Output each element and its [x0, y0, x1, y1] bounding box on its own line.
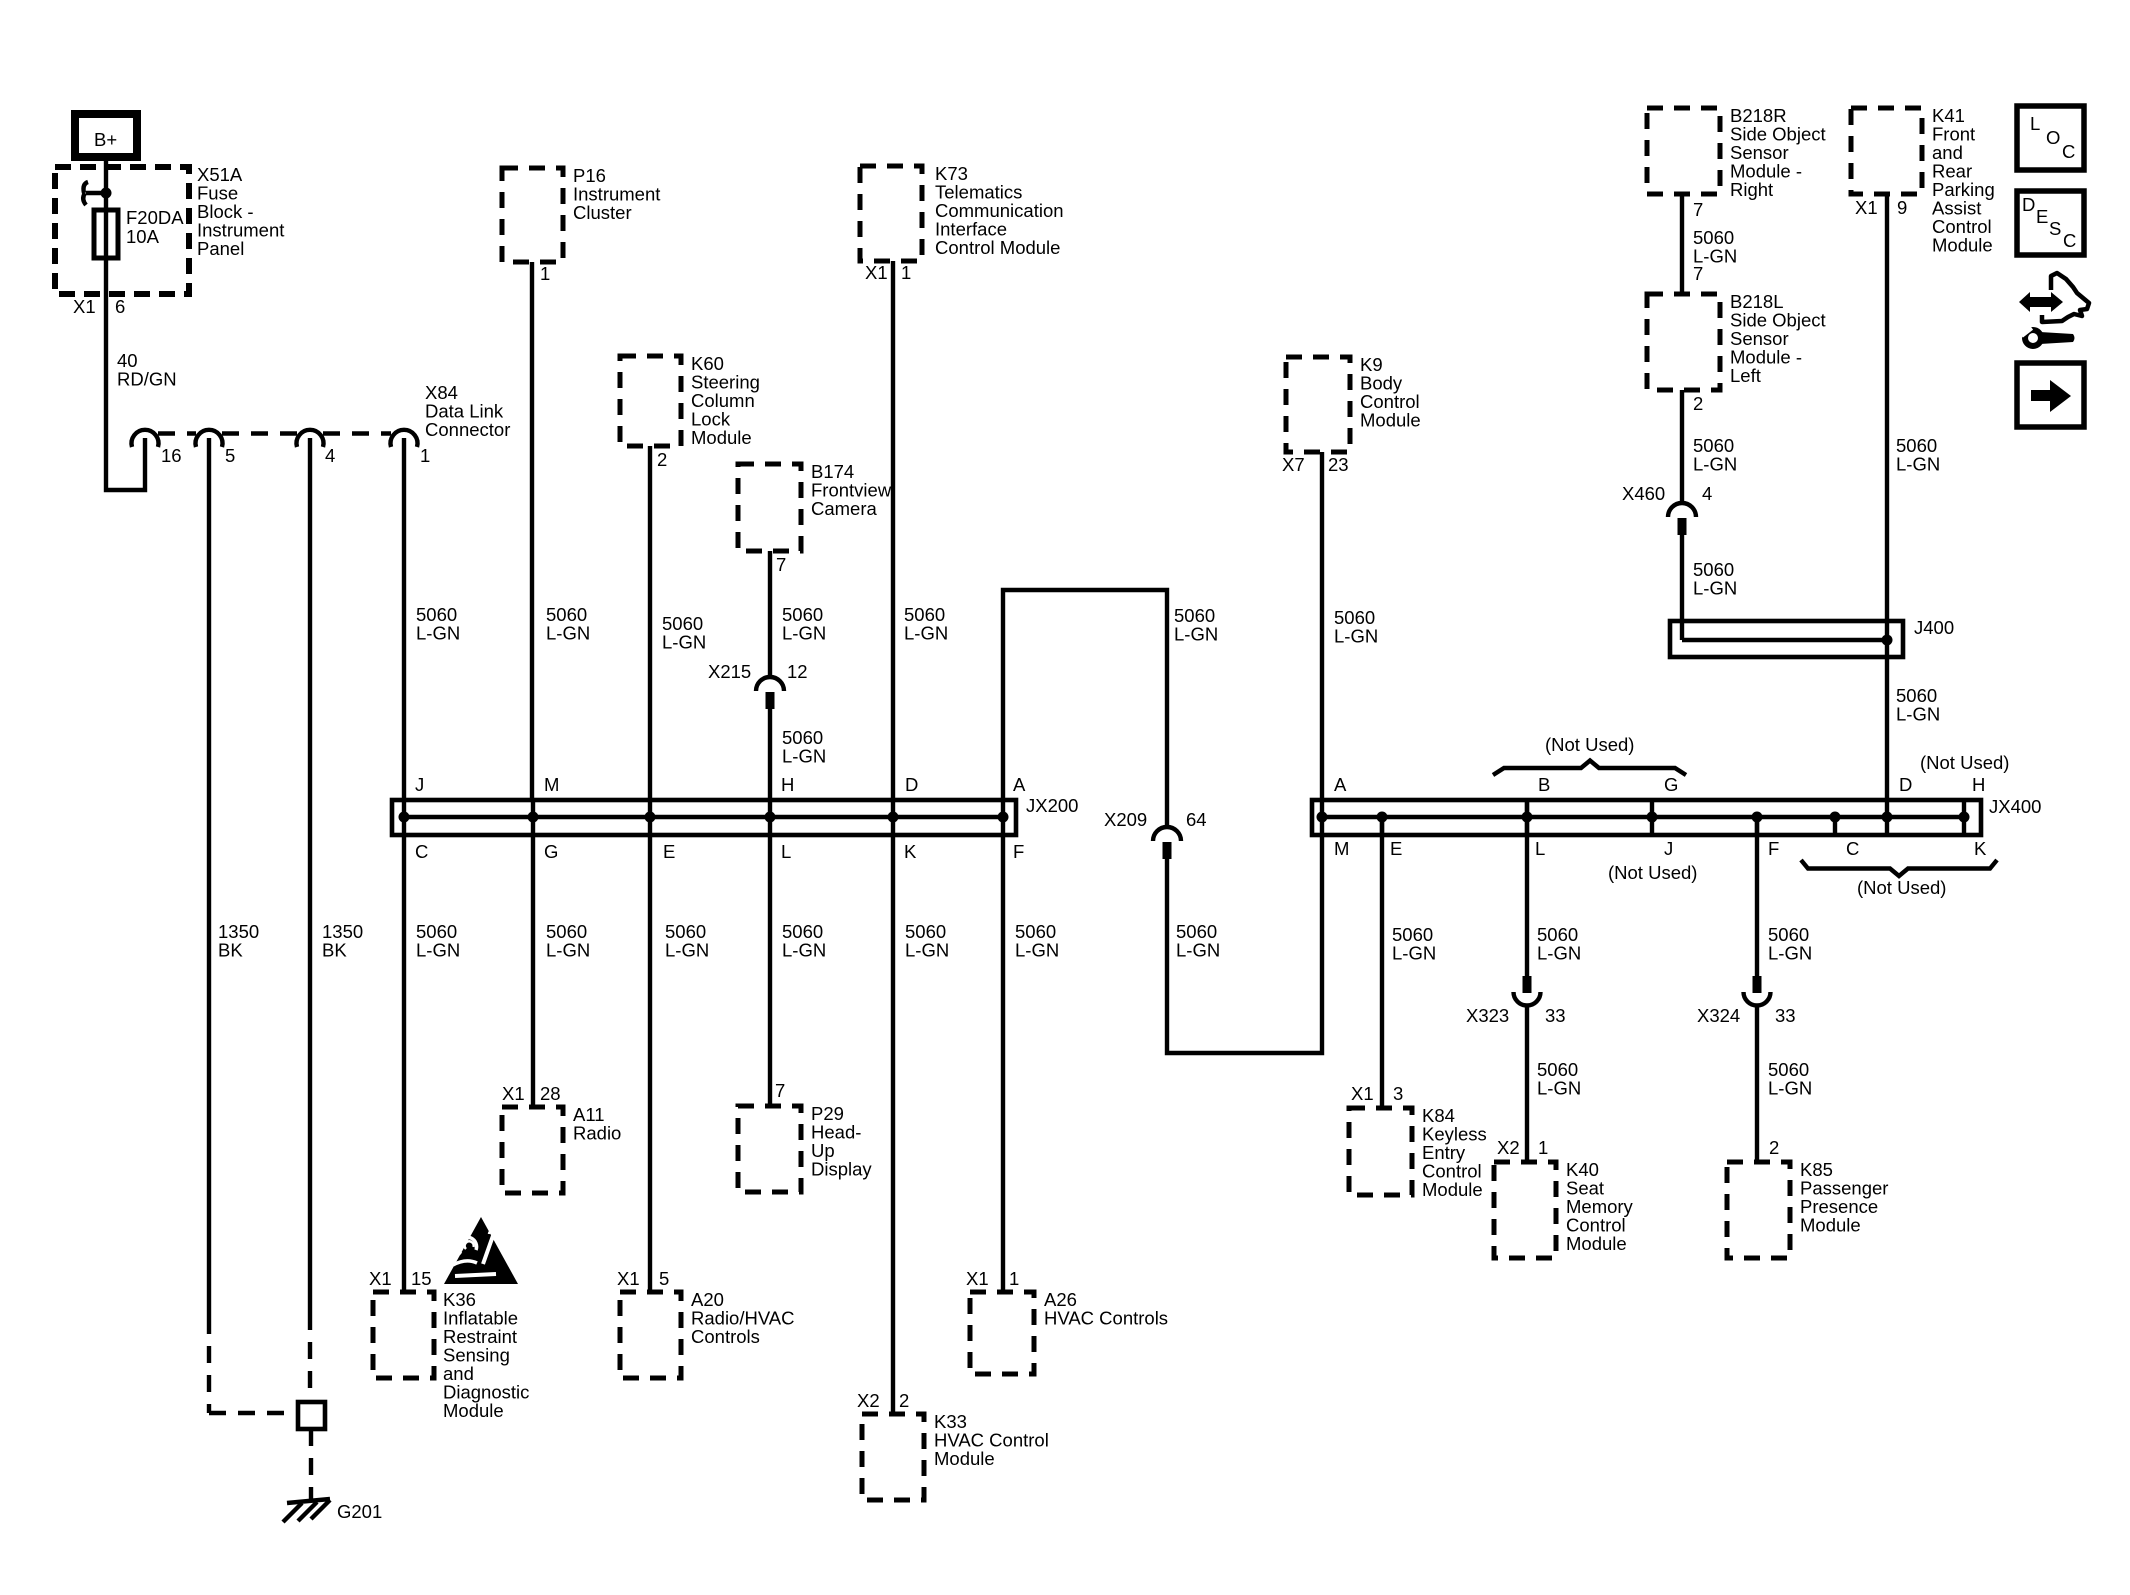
- junction block JX400: [1312, 796, 2041, 835]
- wire P16 to JX200 M, 5060 L-GN: [532, 262, 590, 800]
- pin X1 1 of K73: [865, 262, 911, 283]
- JX200 terminal letters top: [415, 774, 1026, 795]
- svg-text:Cluster: Cluster: [573, 202, 632, 223]
- module K9 Body Control Module: [1286, 354, 1421, 452]
- svg-text:Module: Module: [1932, 235, 1993, 256]
- svg-text:K: K: [904, 841, 917, 862]
- svg-text:D: D: [2022, 194, 2035, 215]
- splice junction box: [298, 1402, 325, 1429]
- svg-text:1: 1: [540, 263, 550, 284]
- svg-text:G201: G201: [337, 1501, 382, 1522]
- svg-text:L-GN: L-GN: [782, 746, 826, 767]
- wire X460 to J400, 5060 L-GN: [1682, 535, 1737, 640]
- svg-text:B+: B+: [94, 129, 117, 150]
- svg-text:X1: X1: [369, 1268, 392, 1289]
- module K85 Passenger Presence Module: [1727, 1159, 1888, 1258]
- pin X1 5 of A20: [617, 1268, 669, 1289]
- pin X2 1 of K40: [1497, 1137, 1548, 1158]
- svg-text:L: L: [781, 841, 791, 862]
- svg-text:3: 3: [1393, 1083, 1403, 1104]
- svg-text:B: B: [1538, 774, 1550, 795]
- wire JX400 L to X323, 5060 L-GN: [1527, 800, 1581, 978]
- wire JX200 A up and over to X209, 5060 L-GN: [1003, 590, 1218, 826]
- module A26 HVAC Controls: [970, 1289, 1168, 1374]
- node JX400 F: [1752, 812, 1763, 823]
- connector X51A fuse block dashed box: [55, 164, 284, 294]
- svg-text:16: 16: [161, 445, 182, 466]
- wire JX200 F to A26, 5060 L-GN: [1003, 800, 1059, 1292]
- svg-text:Controls: Controls: [691, 1326, 760, 1347]
- junction block JX200: [392, 795, 1078, 835]
- svg-text:Module: Module: [1800, 1215, 1861, 1236]
- pin 5 of X84: [196, 430, 236, 466]
- svg-text:L-GN: L-GN: [1693, 454, 1737, 475]
- icon next page arrow box: [2017, 363, 2084, 427]
- svg-text:12: 12: [787, 661, 808, 682]
- module K40 Seat Memory Control Module: [1494, 1159, 1634, 1258]
- wire 40 RD/GN label: [117, 350, 177, 390]
- wire JX200 L to P29, 5060 L-GN: [770, 800, 826, 1106]
- svg-text:L-GN: L-GN: [665, 940, 709, 961]
- svg-text:X209: X209: [1104, 809, 1147, 830]
- svg-text:L: L: [2030, 113, 2040, 134]
- svg-text:2: 2: [1693, 393, 1703, 414]
- svg-text:23: 23: [1328, 454, 1349, 475]
- svg-text:L: L: [1535, 838, 1545, 859]
- svg-text:L-GN: L-GN: [546, 940, 590, 961]
- svg-text:X215: X215: [708, 661, 751, 682]
- pin X1 15 of K36: [369, 1268, 432, 1289]
- svg-text:X1: X1: [502, 1083, 525, 1104]
- wire JX400 F to X324, 5060 L-GN: [1757, 815, 1812, 978]
- svg-text:L-GN: L-GN: [1537, 1078, 1581, 1099]
- svg-text:L-GN: L-GN: [1392, 943, 1436, 964]
- JX400 terminal letters bottom: [1334, 838, 1987, 859]
- svg-text:Radio: Radio: [573, 1123, 621, 1144]
- svg-text:X460: X460: [1622, 483, 1665, 504]
- module P29 Head-Up Display: [738, 1103, 872, 1192]
- bracket not used C-K: [1801, 860, 1997, 898]
- pin 1 of X84: [391, 430, 431, 466]
- svg-text:J: J: [415, 774, 424, 795]
- module K84 Keyless Entry Control Module: [1349, 1105, 1487, 1200]
- pin 4 of X84: [297, 430, 336, 466]
- wire JX200 K to K33, 5060 L-GN: [893, 800, 949, 1414]
- node JX200 H/L: [765, 812, 776, 823]
- wire K73 to JX200 D, 5060 L-GN: [893, 261, 948, 800]
- svg-text:Module: Module: [1360, 410, 1421, 431]
- svg-text:L-GN: L-GN: [662, 632, 706, 653]
- svg-text:L-GN: L-GN: [416, 623, 460, 644]
- svg-text:33: 33: [1545, 1005, 1566, 1026]
- icon DESC box: [2017, 191, 2084, 255]
- svg-text:E: E: [2036, 206, 2048, 227]
- icon LOC box: [2017, 106, 2084, 170]
- svg-text:10A: 10A: [126, 226, 160, 247]
- pin X1 9 of K41: [1855, 197, 1907, 218]
- svg-text:A: A: [1334, 774, 1347, 795]
- wire B174 to X215, 5060 L-GN: [770, 551, 826, 676]
- svg-text:7: 7: [1693, 199, 1703, 220]
- node JX200 A/F: [998, 812, 1009, 823]
- wire JX200 C to K36, 5060 L-GN: [404, 800, 460, 1292]
- svg-text:X1: X1: [1351, 1083, 1374, 1104]
- svg-text:G: G: [544, 841, 558, 862]
- svg-text:Module: Module: [1566, 1233, 1627, 1254]
- svg-text:64: 64: [1186, 809, 1207, 830]
- junction block J400: [1670, 617, 1954, 657]
- svg-text:BK: BK: [218, 940, 243, 961]
- svg-text:X2: X2: [857, 1390, 880, 1411]
- svg-text:X1: X1: [617, 1268, 640, 1289]
- svg-text:L-GN: L-GN: [1768, 1078, 1812, 1099]
- pin X7 23 of K9: [1282, 454, 1349, 475]
- module B218L Side Object Sensor Module - Left: [1647, 291, 1826, 390]
- node JX400 B/L: [1522, 812, 1533, 823]
- wire X84 pin 4 ground lead 1350 BK: [310, 438, 363, 1402]
- wire K60 to JX200 E, 5060 L-GN: [650, 446, 706, 800]
- svg-text:(Not Used): (Not Used): [1857, 877, 1946, 898]
- JX400 stub H/K: [1962, 800, 1966, 835]
- svg-text:7: 7: [775, 1080, 785, 1101]
- module K33 HVAC Control Module: [862, 1411, 1049, 1500]
- node JX200 E: [645, 812, 656, 823]
- wire splice to ground: [309, 1429, 313, 1499]
- svg-text:X323: X323: [1466, 1005, 1509, 1026]
- svg-text:Display: Display: [811, 1159, 872, 1180]
- svg-text:HVAC Controls: HVAC Controls: [1044, 1308, 1168, 1329]
- svg-text:9: 9: [1897, 197, 1907, 218]
- svg-text:F: F: [1768, 838, 1779, 859]
- module B174 Frontview Camera: [738, 461, 892, 551]
- fuse block bus tap symbol: [83, 182, 111, 205]
- node J400 splice: [1882, 635, 1893, 646]
- svg-text:L-GN: L-GN: [782, 623, 826, 644]
- svg-text:1: 1: [1538, 1137, 1548, 1158]
- svg-text:O: O: [2046, 127, 2060, 148]
- wire B+ feed down into fuse block: [106, 157, 145, 490]
- svg-text:(Not Used): (Not Used): [1545, 734, 1634, 755]
- svg-text:S: S: [2049, 218, 2061, 239]
- svg-text:28: 28: [540, 1083, 561, 1104]
- ground G201: [283, 1499, 382, 1522]
- wire J400 to JX400 D label 5060 L-GN: [1896, 685, 1940, 725]
- fuse F20DA 10A: [94, 207, 184, 258]
- node JX200 J/C: [399, 812, 410, 823]
- svg-text:C: C: [2063, 230, 2076, 251]
- svg-text:X1: X1: [73, 296, 96, 317]
- svg-text:L-GN: L-GN: [905, 940, 949, 961]
- svg-text:L-GN: L-GN: [546, 623, 590, 644]
- pin X1 6 of X51A: [73, 296, 125, 317]
- svg-text:Module: Module: [691, 427, 752, 448]
- svg-text:2: 2: [657, 449, 667, 470]
- svg-text:G: G: [1664, 774, 1678, 795]
- module P16 Instrument Cluster: [502, 165, 660, 262]
- svg-text:X1: X1: [966, 1268, 989, 1289]
- svg-text:L-GN: L-GN: [1537, 943, 1581, 964]
- svg-text:J: J: [1664, 838, 1673, 859]
- wire B218L to X460, 5060 L-GN: [1682, 390, 1737, 503]
- SRS warning triangle: [444, 1217, 518, 1284]
- svg-text:L-GN: L-GN: [1896, 704, 1940, 725]
- svg-text:L-GN: L-GN: [1174, 624, 1218, 645]
- svg-text:6: 6: [115, 296, 125, 317]
- svg-text:1: 1: [1009, 1268, 1019, 1289]
- svg-text:5: 5: [225, 445, 235, 466]
- svg-text:2: 2: [899, 1390, 909, 1411]
- wire X84 pin 5 ground lead 1350 BK: [209, 438, 298, 1413]
- svg-text:7: 7: [1693, 263, 1703, 284]
- svg-text:JX400: JX400: [1989, 796, 2041, 817]
- svg-text:X7: X7: [1282, 454, 1305, 475]
- svg-text:Panel: Panel: [197, 238, 244, 259]
- svg-text:L-GN: L-GN: [1693, 578, 1737, 599]
- JX200 terminal letters bottom: [415, 841, 1024, 862]
- svg-text:Right: Right: [1730, 179, 1773, 200]
- module K41 Front and Rear Parking Assist Control Module: [1851, 105, 1995, 256]
- wire X323 to K40, 5060 L-GN: [1527, 1005, 1581, 1162]
- svg-text:L-GN: L-GN: [1334, 626, 1378, 647]
- svg-text:E: E: [663, 841, 675, 862]
- module K60 Steering Column Lock Module: [620, 353, 760, 448]
- svg-text:H: H: [781, 774, 794, 795]
- svg-text:L-GN: L-GN: [1015, 940, 1059, 961]
- connector X460 pin 4 inline: [1622, 483, 1712, 535]
- svg-text:L-GN: L-GN: [782, 940, 826, 961]
- svg-text:F20DA: F20DA: [126, 207, 184, 228]
- svg-text:M: M: [1334, 838, 1349, 859]
- node JX400 E: [1377, 812, 1388, 823]
- svg-text:M: M: [544, 774, 559, 795]
- svg-text:X1: X1: [865, 262, 888, 283]
- pin X1 28 of A11: [502, 1083, 561, 1104]
- JX400 stub C: [1833, 817, 1837, 835]
- node JX400 G/J: [1647, 812, 1658, 823]
- JX400 stub B/L: [1525, 800, 1529, 835]
- B+ battery feed symbol: [75, 114, 137, 157]
- node JX400 D: [1882, 812, 1893, 823]
- svg-text:15: 15: [411, 1268, 432, 1289]
- wire X324 to K85, 5060 L-GN: [1757, 1005, 1812, 1162]
- svg-text:RD/GN: RD/GN: [117, 369, 177, 390]
- node JX400 A/M: [1317, 812, 1328, 823]
- svg-text:L-GN: L-GN: [1768, 943, 1812, 964]
- module B218R Side Object Sensor Module - Right: [1647, 105, 1826, 200]
- node JX400 H/K: [1959, 812, 1970, 823]
- connector X209 pin 64 inline: [1104, 809, 1207, 859]
- svg-text:C: C: [415, 841, 428, 862]
- svg-text:Camera: Camera: [811, 498, 878, 519]
- svg-text:F: F: [1013, 841, 1024, 862]
- connector X215 pin 12 inline: [708, 661, 808, 709]
- svg-text:4: 4: [325, 445, 335, 466]
- svg-text:2: 2: [1769, 1137, 1779, 1158]
- module A20 Radio/HVAC Controls: [620, 1289, 795, 1378]
- connector X84 Data Link Connector dashed bus: [158, 382, 510, 440]
- svg-text:D: D: [905, 774, 918, 795]
- JX400 stub E: [1380, 817, 1384, 835]
- node JX400 C: [1830, 812, 1841, 823]
- JX400 terminal letters top: [1334, 774, 1985, 795]
- JX400 stub F: [1755, 817, 1759, 835]
- JX400 stub G/J: [1650, 800, 1654, 835]
- module K36 Inflatable Restraint Sensing and Diagnostic Module: [373, 1289, 529, 1421]
- bracket not used B-G: [1493, 734, 1686, 775]
- svg-text:Module: Module: [1422, 1179, 1483, 1200]
- svg-text:Module: Module: [934, 1448, 995, 1469]
- wire JX200 G to A11, 5060 L-GN: [533, 800, 590, 1107]
- wire JX200 E to A20, 5060 L-GN: [650, 800, 709, 1292]
- svg-text:L-GN: L-GN: [904, 623, 948, 644]
- svg-text:1: 1: [901, 262, 911, 283]
- svg-text:Connector: Connector: [425, 419, 510, 440]
- svg-text:7: 7: [776, 554, 786, 575]
- wire JX400 E to K84, 5060 L-GN: [1382, 815, 1436, 1108]
- pin 16 of X84: [132, 430, 182, 466]
- svg-text:D: D: [1899, 774, 1912, 795]
- svg-text:C: C: [1846, 838, 1859, 859]
- wire X84 pin1 to JX200 J, 5060 L-GN: [404, 438, 460, 800]
- svg-text:X324: X324: [1697, 1005, 1740, 1026]
- icon data communication arrow and wrench: [2018, 273, 2089, 346]
- svg-text:1: 1: [420, 445, 430, 466]
- svg-text:(Not Used): (Not Used): [1920, 752, 2009, 773]
- pin X1 3 of K84: [1351, 1083, 1403, 1104]
- svg-text:E: E: [1390, 838, 1402, 859]
- connector X323 pin 33 inline: [1466, 976, 1566, 1026]
- svg-text:C: C: [2062, 141, 2075, 162]
- svg-text:L-GN: L-GN: [1896, 454, 1940, 475]
- svg-text:L-GN: L-GN: [1176, 940, 1220, 961]
- svg-text:H: H: [1972, 774, 1985, 795]
- svg-text:X2: X2: [1497, 1137, 1520, 1158]
- wire X215 to JX200 H, 5060 L-GN: [770, 709, 826, 800]
- svg-text:33: 33: [1775, 1005, 1796, 1026]
- svg-text:J400: J400: [1914, 617, 1954, 638]
- svg-text:Module: Module: [443, 1400, 504, 1421]
- wire B218R to B218L, 5060 L-GN: [1682, 194, 1737, 294]
- svg-text:BK: BK: [322, 940, 347, 961]
- node JX200 D/K: [888, 812, 899, 823]
- svg-text:L-GN: L-GN: [416, 940, 460, 961]
- module K73 Telematics Communication Interface Control Module: [860, 163, 1064, 261]
- svg-text:Left: Left: [1730, 365, 1761, 386]
- connector X324 pin 33 inline: [1697, 976, 1796, 1026]
- svg-text:Control Module: Control Module: [935, 237, 1060, 258]
- node JX200 M/G: [528, 812, 539, 823]
- svg-text:5: 5: [659, 1268, 669, 1289]
- svg-text:JX200: JX200: [1026, 795, 1078, 816]
- wire X209 down and over to JX400 M, 5060 L-GN: [1167, 815, 1322, 1053]
- svg-text:4: 4: [1702, 483, 1712, 504]
- wire K41 down to JX400 D, 5060 L-GN: [1887, 194, 1940, 833]
- svg-text:(Not Used): (Not Used): [1608, 862, 1697, 883]
- pin X2 2 of K33: [857, 1390, 909, 1411]
- pin X1 1 of A26: [966, 1268, 1019, 1289]
- wire K9 to JX400 A, 5060 L-GN: [1322, 452, 1378, 818]
- svg-text:X1: X1: [1855, 197, 1878, 218]
- module A11 Radio: [502, 1104, 621, 1193]
- svg-text:A: A: [1013, 774, 1026, 795]
- svg-text:K: K: [1974, 838, 1987, 859]
